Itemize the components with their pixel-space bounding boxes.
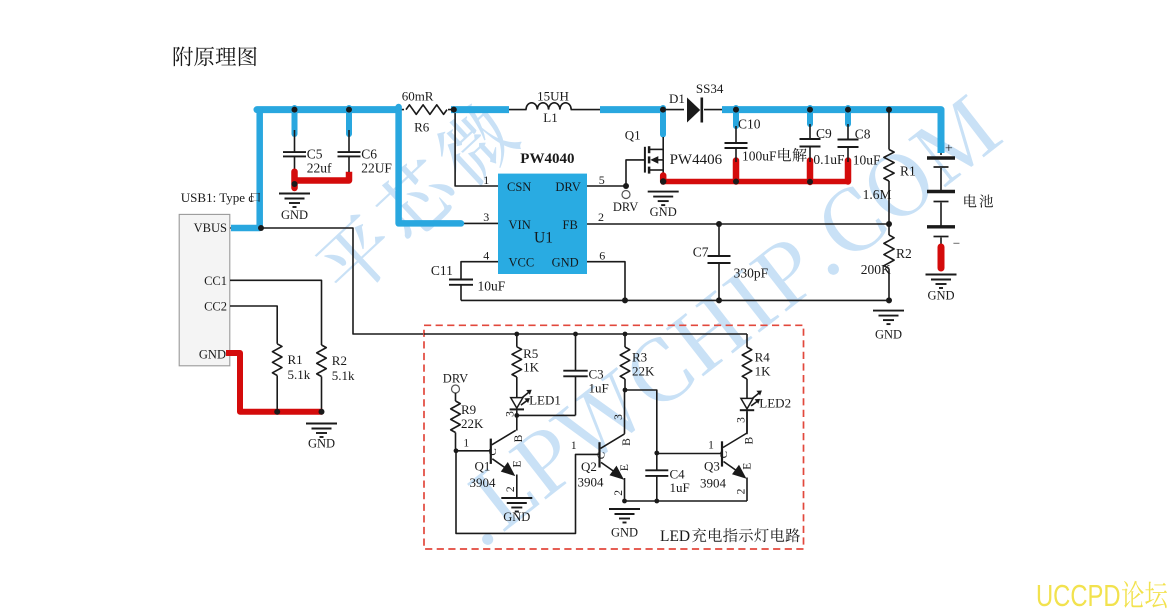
wire Q3 emitter [746, 478, 748, 502]
resistor R2 [888, 224, 890, 235]
svg-text:C3: C3 [589, 367, 604, 382]
svg-text:1: 1 [483, 173, 489, 187]
svg-text:Q1: Q1 [625, 128, 641, 143]
svg-text:GND: GND [503, 510, 530, 524]
battery 电池 [927, 156, 955, 159]
svg-text:C11: C11 [431, 263, 453, 278]
svg-text:R2: R2 [332, 353, 347, 368]
wire Q3 collector [746, 411, 748, 433]
wire DRV pin5 [587, 185, 626, 187]
svg-text:VBUS: VBUS [194, 221, 227, 235]
svg-text:C5: C5 [307, 147, 323, 162]
resistor R1 5.1k [272, 344, 282, 376]
capacitor C8 [847, 124, 849, 140]
svg-text:100uF: 100uF [742, 149, 777, 164]
svg-text:1: 1 [708, 440, 714, 452]
wire blue Q1 drain stub [660, 108, 666, 135]
svg-text:E: E [511, 460, 523, 467]
resistor R3 [624, 334, 626, 347]
svg-text:1.6M: 1.6M [863, 187, 892, 202]
svg-text:B: B [743, 437, 755, 445]
node Q1 source junction [660, 178, 666, 184]
svg-text:LED: LED [660, 528, 690, 545]
wire top rail [258, 109, 941, 111]
ground Q2 [609, 508, 640, 510]
svg-text:5.1k: 5.1k [288, 367, 311, 382]
capacitor C9 [809, 124, 811, 139]
svg-text:22K: 22K [632, 364, 655, 379]
svg-text:GND: GND [927, 289, 954, 303]
svg-text:U1: U1 [534, 230, 553, 247]
label 电池 [964, 194, 993, 207]
capacitor C7 [718, 224, 720, 256]
diode LED2 [741, 398, 753, 409]
node C10 rail [733, 107, 739, 113]
wire GND pin6 [587, 262, 625, 301]
svg-text:15UH: 15UH [537, 89, 569, 104]
svg-text:CC1: CC1 [204, 274, 227, 288]
ground battery [926, 274, 957, 276]
wire base coupling [456, 451, 600, 534]
node C7 top [716, 221, 722, 227]
wire blue rail seg2 [451, 106, 509, 113]
svg-text:DRV: DRV [555, 180, 580, 194]
node Q1 base [454, 448, 459, 453]
connector USB1 box [179, 214, 230, 365]
node DRV [623, 183, 629, 189]
capacitor C11 [449, 279, 473, 281]
svg-text:D1: D1 [669, 91, 685, 106]
svg-text:C6: C6 [361, 147, 377, 162]
node C7 bottom [716, 297, 722, 303]
svg-text:2: 2 [613, 490, 625, 496]
wire blue rail seg1 [257, 106, 398, 113]
svg-text:UCCPD: UCCPD [1036, 578, 1121, 610]
node C8 rail [845, 107, 851, 113]
svg-text:3: 3 [505, 411, 517, 417]
wire Q1b emitter [516, 475, 518, 499]
ground C5 [279, 193, 310, 195]
svg-text:B: B [513, 434, 525, 442]
node CSN junction [451, 107, 457, 113]
svg-text:60mR: 60mR [402, 89, 434, 104]
resistor R1 [884, 150, 894, 182]
svg-text:GND: GND [650, 205, 677, 219]
svg-text:3: 3 [736, 417, 748, 423]
svg-text:R6: R6 [414, 120, 430, 135]
svg-text:3904: 3904 [470, 475, 497, 490]
op-amp U1 PW4040 body [498, 174, 587, 274]
svg-text:3904: 3904 [700, 476, 727, 491]
svg-text:E: E [742, 463, 754, 470]
transistor Q1 PW4406 [644, 147, 646, 173]
svg-text:GND: GND [611, 526, 638, 540]
wire LED1 cathode [516, 410, 518, 415]
wire blue C6 stub [346, 108, 352, 134]
label UCCPD论坛 [1036, 578, 1167, 613]
wire battery drop [940, 110, 942, 155]
svg-text:PW4406: PW4406 [670, 152, 723, 168]
node C5 bottom [292, 181, 298, 187]
transistor Q2 3904 [598, 442, 600, 467]
svg-text:B: B [621, 438, 633, 446]
svg-text:6: 6 [599, 248, 605, 262]
node VBUS [258, 225, 264, 231]
svg-text:C10: C10 [738, 117, 761, 132]
title 附原理图 [174, 47, 257, 67]
svg-text:LED2: LED2 [759, 396, 791, 411]
svg-text:VCC: VCC [509, 256, 535, 270]
box LED indicator [424, 325, 804, 549]
capacitor C3 [575, 334, 577, 371]
wire R4 LED2 [746, 379, 748, 398]
capacitor C4 [645, 469, 668, 471]
resistor R6 [404, 103, 448, 116]
wire blue C8 stub [845, 108, 851, 124]
resistor R4 [746, 334, 748, 347]
resistor R9 [455, 393, 457, 401]
svg-text:LED1: LED1 [529, 393, 561, 408]
wire FB [587, 223, 889, 225]
port DRV2 circle [452, 385, 460, 393]
wire R5 LED1 [516, 377, 518, 398]
svg-text:2: 2 [598, 210, 604, 224]
svg-text:FB: FB [563, 218, 578, 232]
svg-text:Q3: Q3 [704, 459, 720, 474]
diode D1 [684, 104, 704, 115]
svg-text:2: 2 [505, 486, 517, 492]
node R3 bottom [623, 388, 628, 393]
svg-text:0.1uF: 0.1uF [813, 152, 845, 167]
svg-text:10uF: 10uF [478, 279, 506, 294]
node R2 bottom [886, 297, 892, 303]
capacitor C5 [294, 130, 296, 152]
resistor R2 5.1k [317, 345, 327, 377]
wire Q1b collector [516, 415, 518, 430]
svg-text:SS34: SS34 [696, 81, 724, 96]
node C9 rail [807, 107, 813, 113]
svg-text:5: 5 [599, 173, 605, 187]
node Q3 base junction [654, 451, 659, 456]
wire Q2 collector [624, 390, 626, 434]
wire Q1 drain [662, 137, 664, 151]
wire R3 to C4 [625, 390, 657, 470]
svg-text:R3: R3 [632, 350, 647, 365]
wire R1 top [888, 110, 890, 150]
svg-text:1K: 1K [523, 360, 540, 375]
node C10 red [733, 179, 739, 185]
svg-text:330pF: 330pF [734, 266, 769, 281]
wire LED rail [424, 333, 747, 335]
resistor R5 [516, 334, 518, 347]
node D1 anode [660, 107, 666, 113]
svg-text:R4: R4 [755, 350, 771, 365]
wire red bus [661, 179, 849, 185]
node R1 gnd [274, 409, 280, 415]
node R3 rail [623, 332, 628, 337]
svg-text:22UF: 22UF [361, 161, 392, 176]
transistor Q1 3904 [490, 439, 492, 464]
svg-text:C: C [596, 452, 608, 459]
capacitor C10 [735, 126, 737, 143]
node C9 red [807, 179, 813, 185]
ground Q1 [648, 191, 679, 193]
node R2 gnd [319, 409, 325, 415]
svg-text:22K: 22K [461, 416, 484, 431]
wire R1 bottom [888, 181, 890, 224]
svg-text:1: 1 [463, 438, 469, 450]
svg-text:1uF: 1uF [670, 480, 690, 495]
wire VCC pin4 [461, 262, 498, 280]
wire blue C9 stub [807, 108, 813, 124]
ground Q1b [501, 497, 532, 499]
port DRV circle [622, 191, 630, 199]
svg-text:DRV: DRV [613, 200, 638, 214]
watermark LPWCHIP.COM [448, 93, 1005, 548]
wire blue VBUS elbow [231, 107, 260, 228]
svg-text:200K: 200K [861, 262, 891, 277]
svg-text:USB1: Type c: USB1: Type c [181, 190, 254, 205]
wire red C8 stub [845, 161, 852, 182]
ground R2 [873, 310, 904, 312]
svg-text:L1: L1 [543, 110, 557, 125]
wire blue rail seg3 [600, 106, 661, 113]
svg-text:GND: GND [552, 256, 579, 270]
wire blue C5 stub [292, 108, 298, 134]
wire red battery [938, 247, 945, 268]
node LED1 bottom [514, 413, 519, 418]
svg-text:C7: C7 [693, 245, 709, 260]
svg-text:GND: GND [308, 437, 335, 451]
svg-text:DRV: DRV [443, 372, 468, 386]
node C4 bottom [654, 499, 659, 504]
wire VIN feed [399, 110, 499, 224]
svg-text:−: − [953, 236, 960, 251]
wire LED2 cathode [746, 411, 748, 434]
diode LED1 [511, 398, 523, 409]
wire red C10 stub [733, 161, 740, 182]
node FB R1 [886, 221, 892, 227]
wire Q1 source [662, 170, 664, 184]
svg-text:22uf: 22uf [307, 161, 332, 176]
wire red usb gnd [226, 353, 323, 412]
svg-text:4: 4 [483, 248, 489, 262]
svg-text:3: 3 [613, 414, 625, 420]
svg-text:2: 2 [735, 488, 747, 494]
wire red C5C6 [295, 172, 350, 181]
svg-text:C: C [718, 451, 730, 458]
svg-text:VIN: VIN [509, 218, 531, 232]
svg-text:C8: C8 [855, 127, 871, 142]
wire R2 bottom [888, 269, 890, 301]
wire C3 to LED1 [517, 414, 576, 416]
wire red C9 stub [807, 161, 814, 183]
svg-text:E: E [619, 464, 631, 471]
svg-text:R2: R2 [896, 246, 912, 261]
wire VBUS vertical [230, 110, 260, 228]
svg-text:Q2: Q2 [581, 459, 597, 474]
inductor L1 [527, 100, 571, 111]
wire R2 bottom usb [321, 377, 323, 412]
wire CC1 [230, 280, 322, 345]
transistor Q3 3904 [721, 441, 723, 466]
wire CSN feed [454, 110, 499, 186]
wire VBUS to LED [261, 228, 424, 334]
wire Q2 emitter [624, 478, 626, 501]
svg-text:CSN: CSN [507, 180, 531, 194]
watermark 平芯微 [308, 95, 525, 304]
svg-text:R1: R1 [288, 352, 303, 367]
wire R9 bottom [455, 433, 457, 451]
svg-text:C: C [487, 448, 499, 455]
label 电解 [778, 148, 806, 162]
svg-text:CC2: CC2 [204, 300, 227, 314]
wire emitter rail [625, 500, 748, 502]
svg-text:1uF: 1uF [589, 380, 609, 395]
wire R1 bottom usb [276, 376, 278, 412]
wire bottom rail [461, 299, 889, 301]
node Q2 emitter [622, 499, 627, 504]
wire blue rail seg4 [722, 110, 941, 153]
svg-text:C9: C9 [816, 126, 832, 141]
svg-text:+: + [945, 142, 953, 157]
svg-text:PW4040: PW4040 [520, 151, 574, 167]
svg-text:3: 3 [483, 210, 489, 224]
wire blue VIN elbow [399, 107, 461, 223]
wire R3 bottom [624, 379, 626, 390]
svg-text:GND: GND [875, 328, 902, 342]
node R1 rail [886, 107, 892, 113]
svg-text:1: 1 [571, 440, 577, 452]
node C3 rail [573, 332, 578, 337]
node C5 rail [292, 107, 298, 113]
svg-text:1K: 1K [755, 364, 772, 379]
wire Q1b base [456, 450, 491, 452]
wire Q3 base [657, 453, 722, 455]
svg-text:R9: R9 [461, 402, 476, 417]
svg-text:Q1: Q1 [475, 459, 491, 474]
node C6 rail [346, 107, 352, 113]
svg-text:GND: GND [199, 347, 226, 361]
svg-text:5.1k: 5.1k [332, 368, 355, 383]
capacitor C6 [348, 130, 350, 152]
node R5 rail [514, 332, 519, 337]
node CSN junction top [451, 107, 457, 113]
wire blue C10 stub [733, 108, 739, 126]
ground usb [306, 423, 337, 425]
node GND bottom [622, 297, 628, 303]
wire CC2 [230, 306, 277, 344]
svg-text:GND: GND [281, 208, 308, 222]
svg-text:3904: 3904 [578, 475, 605, 490]
svg-text:10uF: 10uF [853, 153, 881, 168]
svg-text:R1: R1 [900, 164, 916, 179]
